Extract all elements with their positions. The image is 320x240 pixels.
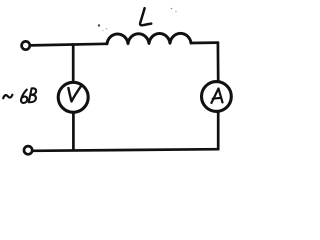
wire voltmeter bottom lead <box>72 113 75 150</box>
label L <box>140 8 151 25</box>
terminal top-left <box>22 41 30 49</box>
label A <box>211 89 222 104</box>
scan speck top right <box>171 8 173 10</box>
wire voltmeter top lead <box>72 45 75 83</box>
wire top-right segment <box>191 41 218 44</box>
ammeter A1 circle <box>202 82 232 112</box>
wire bottom <box>33 149 218 151</box>
terminal bottom-left <box>24 146 32 154</box>
label B (Cyrillic V) <box>29 88 36 102</box>
label 6 <box>21 90 27 103</box>
wire right vertical to ammeter <box>217 43 220 82</box>
label ~ source tilde <box>3 95 12 98</box>
scan speck near coil start <box>98 24 100 26</box>
inductor L1 coil <box>107 33 191 43</box>
wire top from terminal to inductor <box>30 44 107 46</box>
wire from ammeter down <box>217 113 220 150</box>
label V <box>68 86 81 102</box>
voltmeter V1 circle <box>58 82 88 112</box>
